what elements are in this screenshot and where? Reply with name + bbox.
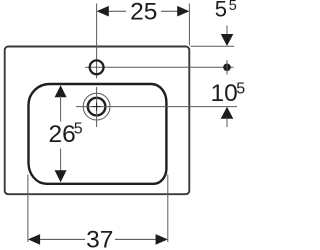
- dim 25: dimension line: [107, 10, 126, 12]
- dim 25: left arrow: [97, 6, 109, 17]
- faucet hole: [90, 60, 104, 74]
- drain vertical centerline: [96, 87, 98, 127]
- svg-text:25: 25: [130, 0, 157, 26]
- svg-text:37: 37: [86, 227, 113, 250]
- dim 5.5: arrow stem: [226, 26, 228, 37]
- svg-text:5: 5: [229, 0, 237, 14]
- dim 5.5: reference line (top edge extended): [191, 45, 234, 47]
- dim 5.5: down arrow: [221, 34, 234, 46]
- dim 25: right arrow: [177, 6, 189, 17]
- dim 26.5: down arrow: [55, 170, 67, 182]
- dim 26.5: up arrow: [55, 85, 67, 97]
- drain center cross: [93, 106, 101, 108]
- dim 25: right extension line: [188, 4, 190, 46]
- svg-text:5: 5: [74, 121, 83, 138]
- dim 37: dimension line: [39, 238, 85, 240]
- dim 10.5: arrow stem: [226, 118, 228, 128]
- drain outer thin circle: [83, 93, 110, 120]
- drain horizontal centerline extending to right dimension column: [76, 106, 237, 108]
- dim 26.5: upper stem: [60, 96, 62, 122]
- dim 37: right arrow: [156, 234, 168, 245]
- faucet hole horizontal centerline extending to right dimension column: [85, 66, 234, 68]
- shared reference dot on faucet centerline: [223, 64, 231, 72]
- basin inner outline: [29, 84, 167, 184]
- drain hole thick circle: [88, 98, 106, 116]
- svg-text:5: 5: [215, 0, 227, 22]
- dim 26.5: lower stem: [60, 149, 62, 172]
- dim 37: left extension line: [27, 175, 29, 243]
- dim 37: left arrow: [28, 234, 40, 245]
- svg-text:10: 10: [211, 80, 238, 107]
- dim 10.5: up arrow: [221, 107, 234, 119]
- svg-text:5: 5: [236, 81, 245, 98]
- faucet hole vertical centerline / dim-25 left extension: [96, 4, 98, 79]
- washbasin outer edge: [5, 47, 190, 195]
- dim 37: right extension line: [167, 175, 169, 243]
- svg-text:26: 26: [49, 121, 76, 148]
